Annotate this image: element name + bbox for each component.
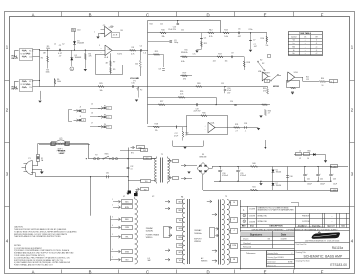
svg-text:+: + bbox=[305, 53, 306, 55]
svg-text:F: F bbox=[321, 12, 324, 17]
svg-text:-45V: -45V bbox=[333, 190, 336, 192]
svg-text:ORN: ORN bbox=[125, 227, 130, 229]
svg-text:J6: J6 bbox=[91, 113, 93, 115]
svg-text:22k: 22k bbox=[29, 87, 32, 89]
svg-text:C: C bbox=[146, 12, 149, 17]
svg-text:VR1: VR1 bbox=[146, 158, 149, 160]
svg-text:C15: C15 bbox=[221, 83, 224, 85]
svg-text:S2: S2 bbox=[260, 60, 262, 62]
svg-text:470: 470 bbox=[263, 90, 266, 92]
svg-text:Tolerance: Tolerance bbox=[246, 252, 256, 255]
svg-text:+: + bbox=[240, 170, 241, 172]
svg-text:50/60Hz: 50/60Hz bbox=[194, 233, 201, 235]
svg-text:4.7k: 4.7k bbox=[180, 94, 183, 96]
svg-text:C21: C21 bbox=[160, 23, 163, 25]
svg-text:Released: Released bbox=[243, 246, 251, 248]
svg-text:D: D bbox=[206, 269, 209, 274]
svg-text:J4: J4 bbox=[330, 82, 332, 84]
svg-text:3: 3 bbox=[99, 45, 100, 47]
svg-text:TL072: TL072 bbox=[117, 54, 122, 56]
svg-text:22k: 22k bbox=[29, 56, 32, 58]
svg-text:.47uF: .47uF bbox=[174, 135, 178, 137]
svg-text:P2: P2 bbox=[108, 108, 110, 110]
svg-text:100k: 100k bbox=[57, 81, 61, 83]
svg-text:Lo: Lo bbox=[293, 43, 295, 45]
svg-text:R15: R15 bbox=[155, 51, 158, 53]
svg-text:L2: L2 bbox=[299, 151, 301, 153]
svg-text:1N5404: 1N5404 bbox=[276, 171, 282, 173]
svg-text:470: 470 bbox=[183, 79, 186, 81]
svg-text:1N4448: 1N4448 bbox=[77, 42, 84, 44]
svg-text:P1: P1 bbox=[28, 158, 30, 160]
svg-text:4.5 R: 4.5 R bbox=[113, 34, 118, 36]
svg-text:VOLUME: VOLUME bbox=[130, 78, 140, 80]
svg-text:C41: C41 bbox=[307, 178, 310, 180]
svg-text:10uF: 10uF bbox=[333, 184, 337, 186]
svg-text:R11: R11 bbox=[204, 43, 207, 45]
svg-text:R1 1k: R1 1k bbox=[29, 50, 33, 52]
svg-text:C: C bbox=[146, 269, 149, 274]
svg-text:R7: R7 bbox=[113, 62, 115, 64]
svg-text:.047: .047 bbox=[254, 46, 257, 48]
svg-text:C2: C2 bbox=[62, 44, 64, 46]
svg-text:+4: +4 bbox=[315, 46, 317, 48]
svg-text:230VAC: 230VAC bbox=[146, 227, 154, 230]
svg-text:R30: R30 bbox=[202, 112, 205, 114]
svg-text:R40: R40 bbox=[252, 163, 255, 165]
svg-text:INPUT: INPUT bbox=[12, 58, 19, 60]
svg-text:R2 68k: R2 68k bbox=[21, 84, 26, 86]
svg-text:ETS183-00: ETS183-00 bbox=[330, 263, 347, 267]
svg-text:.01: .01 bbox=[130, 168, 132, 170]
svg-text:F2: F2 bbox=[95, 155, 97, 157]
svg-text:L1: L1 bbox=[54, 44, 56, 46]
svg-text:COPYRIGHT ST LOUIS MUSIC SUPPL: COPYRIGHT ST LOUIS MUSIC SUPPLY CO bbox=[296, 226, 326, 228]
svg-text:50k: 50k bbox=[135, 64, 138, 66]
svg-text:LAMP: LAMP bbox=[59, 152, 65, 155]
svg-text:10: 10 bbox=[307, 158, 309, 160]
svg-text:C9: C9 bbox=[231, 53, 233, 55]
svg-text:INPUT: INPUT bbox=[12, 89, 19, 91]
svg-text:100uF: 100uF bbox=[320, 184, 325, 186]
svg-text:1M: 1M bbox=[43, 53, 46, 55]
svg-text:-3: -3 bbox=[316, 43, 318, 45]
svg-text:4k7: 4k7 bbox=[105, 63, 108, 65]
svg-text:R12: R12 bbox=[209, 29, 212, 31]
svg-text:J3: J3 bbox=[83, 120, 85, 122]
svg-text:Date: Date bbox=[250, 225, 254, 228]
svg-text:R56: R56 bbox=[321, 78, 324, 80]
svg-text:0: 0 bbox=[316, 40, 317, 42]
svg-text:−: − bbox=[204, 130, 205, 132]
svg-text:Drawing Type INCHES: Drawing Type INCHES bbox=[268, 257, 284, 259]
svg-text:R8: R8 bbox=[132, 47, 134, 49]
svg-text:F: F bbox=[321, 269, 324, 274]
svg-text:1.0: 1.0 bbox=[143, 53, 146, 55]
svg-text:GRN: GRN bbox=[125, 251, 130, 253]
svg-text:B: B bbox=[89, 269, 92, 274]
svg-text:R31: R31 bbox=[235, 124, 238, 126]
svg-text:RA115a: RA115a bbox=[332, 246, 344, 250]
svg-text:J2: J2 bbox=[83, 111, 85, 113]
svg-text:Checked: Checked bbox=[243, 243, 250, 245]
svg-text:THAT EXPLAINED IN THE OPERATIN: THAT EXPLAINED IN THE OPERATING INSTRUCT… bbox=[14, 235, 61, 238]
svg-text:YEL: YEL bbox=[125, 237, 128, 239]
svg-text:C19: C19 bbox=[195, 108, 198, 110]
svg-text:C31: C31 bbox=[106, 172, 109, 174]
svg-text:1N4448: 1N4448 bbox=[75, 57, 82, 59]
svg-text:S2: S2 bbox=[262, 63, 264, 65]
svg-text:R26: R26 bbox=[197, 83, 200, 85]
svg-text:WIRING: WIRING bbox=[146, 237, 153, 239]
svg-text:10: 10 bbox=[321, 85, 323, 87]
svg-text:R2: R2 bbox=[41, 58, 43, 60]
svg-text:+: + bbox=[222, 170, 223, 172]
svg-text:+2: +2 bbox=[315, 53, 317, 55]
svg-text:22k: 22k bbox=[181, 30, 184, 32]
svg-text:On: On bbox=[304, 36, 306, 38]
svg-text:Mid: Mid bbox=[292, 46, 295, 48]
svg-text:P2: P2 bbox=[140, 90, 142, 92]
svg-text:C40: C40 bbox=[290, 176, 293, 178]
svg-text:Control: Control bbox=[291, 35, 297, 38]
svg-text:NONE: NONE bbox=[288, 261, 293, 263]
svg-text:+: + bbox=[320, 174, 321, 176]
svg-text:8.2k: 8.2k bbox=[209, 36, 213, 38]
svg-text:YEL: YEL bbox=[179, 220, 182, 222]
svg-text:SW2: SW2 bbox=[138, 148, 141, 150]
svg-text:4.7k: 4.7k bbox=[131, 53, 134, 55]
svg-text:BRIDGE: BRIDGE bbox=[200, 157, 208, 159]
svg-text:R18: R18 bbox=[247, 62, 250, 64]
svg-text:1: 1 bbox=[94, 32, 95, 34]
svg-text:4700uF: 4700uF bbox=[222, 175, 228, 177]
svg-text:PWB ECN: PWB ECN bbox=[302, 216, 310, 218]
svg-text:6.8k: 6.8k bbox=[181, 61, 185, 63]
svg-text:C3: C3 bbox=[103, 25, 105, 27]
svg-text:WIRING: WIRING bbox=[194, 241, 201, 243]
svg-text:J8: J8 bbox=[266, 81, 268, 83]
svg-text:C20: C20 bbox=[230, 101, 233, 103]
svg-text:C43: C43 bbox=[333, 178, 336, 180]
svg-text:8: 8 bbox=[234, 219, 235, 221]
svg-text:16: 16 bbox=[233, 202, 235, 204]
svg-text:First Used On:: First Used On: bbox=[296, 243, 307, 246]
svg-text:22uF 25V: 22uF 25V bbox=[194, 110, 202, 112]
svg-text:+: + bbox=[307, 174, 308, 176]
svg-text:A: A bbox=[32, 12, 35, 17]
svg-text:DESCRIPTION: DESCRIPTION bbox=[270, 226, 284, 228]
svg-text:1/31/98: 1/31/98 bbox=[249, 216, 255, 218]
svg-text:R41: R41 bbox=[252, 187, 255, 189]
svg-text:C7: C7 bbox=[253, 40, 255, 42]
svg-text:R9: R9 bbox=[113, 69, 115, 71]
svg-text:C22: C22 bbox=[306, 79, 309, 81]
svg-text:47k: 47k bbox=[89, 55, 92, 57]
svg-text:C7a: C7a bbox=[193, 53, 196, 55]
svg-text:U1B: U1B bbox=[108, 49, 111, 51]
svg-text:R14: R14 bbox=[261, 38, 264, 40]
svg-text:INITIAL REL: INITIAL REL bbox=[258, 215, 267, 218]
svg-text:LP1: LP1 bbox=[59, 138, 62, 140]
svg-text:MODE: MODE bbox=[273, 86, 280, 88]
svg-text:R17: R17 bbox=[218, 53, 221, 55]
svg-text:-5: -5 bbox=[316, 50, 318, 52]
svg-text:A: A bbox=[32, 269, 35, 274]
svg-text:J2: J2 bbox=[80, 107, 82, 109]
svg-text:E: E bbox=[264, 12, 267, 17]
svg-text:22uF 25V: 22uF 25V bbox=[168, 29, 177, 31]
svg-text:Drawing Scale: Drawing Scale bbox=[268, 253, 278, 255]
svg-text:R2 68k: R2 68k bbox=[21, 53, 26, 55]
svg-text:T1: T1 bbox=[161, 154, 163, 156]
svg-text:22k: 22k bbox=[155, 130, 158, 132]
svg-text:1k: 1k bbox=[185, 135, 187, 137]
svg-text:T3: T3 bbox=[225, 196, 227, 198]
svg-text:100k: 100k bbox=[46, 48, 50, 50]
svg-text:R27: R27 bbox=[160, 101, 163, 103]
svg-text:CU PROM: CU PROM bbox=[302, 221, 310, 223]
svg-text:33k: 33k bbox=[161, 36, 164, 38]
svg-text:50/60Hz: 50/60Hz bbox=[146, 231, 153, 233]
svg-text:P3: P3 bbox=[108, 117, 110, 119]
svg-text:+: + bbox=[305, 50, 306, 52]
svg-text:4700uF: 4700uF bbox=[240, 175, 246, 177]
svg-text:100uF: 100uF bbox=[307, 184, 312, 186]
svg-text:1N5404: 1N5404 bbox=[276, 185, 282, 187]
svg-text:V1: V1 bbox=[123, 196, 125, 198]
svg-text:4: 4 bbox=[234, 230, 235, 232]
svg-text:Drawn: Drawn bbox=[243, 238, 248, 241]
svg-text:15k: 15k bbox=[266, 45, 269, 47]
svg-text:R13a: R13a bbox=[249, 29, 253, 31]
svg-text:C8: C8 bbox=[158, 69, 160, 71]
svg-text:RT1: RT1 bbox=[131, 153, 134, 155]
svg-text:C42: C42 bbox=[320, 178, 323, 180]
svg-text:+: + bbox=[305, 40, 306, 42]
svg-text:T2: T2 bbox=[181, 197, 183, 199]
svg-text:Date: Date bbox=[281, 233, 287, 236]
svg-text:R24: R24 bbox=[150, 23, 153, 25]
svg-text:.1: .1 bbox=[245, 131, 246, 133]
svg-text:E: E bbox=[264, 269, 267, 274]
svg-text:R25: R25 bbox=[99, 83, 102, 85]
svg-text:.022: .022 bbox=[212, 60, 215, 62]
svg-text:V2: V2 bbox=[152, 196, 154, 198]
svg-text:10k: 10k bbox=[99, 90, 102, 92]
svg-text:P4: P4 bbox=[108, 127, 110, 129]
svg-text:C2: C2 bbox=[140, 46, 142, 48]
svg-text:C5: C5 bbox=[204, 38, 206, 40]
svg-text:C15: C15 bbox=[131, 83, 134, 85]
svg-text:J5: J5 bbox=[91, 104, 93, 106]
svg-text:SW1: SW1 bbox=[105, 153, 109, 155]
svg-text:BRIGHT: BRIGHT bbox=[263, 73, 271, 75]
svg-text:Date: Date bbox=[341, 225, 345, 228]
svg-text:+45V: +45V bbox=[333, 167, 337, 169]
svg-text:1/14/98: 1/14/98 bbox=[249, 208, 255, 210]
svg-text:COM: COM bbox=[232, 245, 237, 247]
svg-text:Signatures: Signatures bbox=[250, 233, 263, 236]
svg-text:B: B bbox=[89, 12, 92, 17]
svg-text:TH2: TH2 bbox=[144, 189, 147, 191]
svg-text:2.7: 2.7 bbox=[236, 130, 238, 132]
svg-text:R50: R50 bbox=[308, 151, 311, 153]
svg-text:C32: C32 bbox=[130, 166, 133, 168]
svg-text:J7: J7 bbox=[91, 122, 93, 124]
svg-text:C6: C6 bbox=[238, 29, 240, 31]
svg-text:100p: 100p bbox=[174, 42, 178, 44]
svg-text:1k5: 1k5 bbox=[225, 60, 228, 62]
svg-text:+: + bbox=[333, 174, 334, 176]
svg-text:D6: D6 bbox=[276, 169, 278, 171]
svg-text:.47: .47 bbox=[59, 55, 62, 57]
svg-text:D: D bbox=[206, 12, 209, 17]
svg-text:R21: R21 bbox=[306, 77, 309, 79]
svg-text:R13: R13 bbox=[224, 29, 227, 31]
svg-text:R19: R19 bbox=[183, 72, 186, 74]
svg-text:TH1: TH1 bbox=[145, 181, 148, 183]
svg-text:R28: R28 bbox=[155, 124, 158, 126]
svg-text:INITIAL REL: INITIAL REL bbox=[258, 220, 267, 223]
svg-text:L2: L2 bbox=[299, 158, 301, 160]
svg-text:D7: D7 bbox=[276, 183, 278, 185]
svg-text:C18: C18 bbox=[244, 123, 247, 125]
svg-text:R1 1k: R1 1k bbox=[29, 81, 33, 83]
svg-text:2.7: 2.7 bbox=[268, 113, 270, 115]
svg-text:3: 3 bbox=[244, 221, 245, 223]
svg-text:240VAC: 240VAC bbox=[194, 229, 202, 232]
svg-text:1/31/98: 1/31/98 bbox=[249, 221, 255, 223]
svg-text:6.8k: 6.8k bbox=[184, 52, 187, 54]
svg-text:+: + bbox=[305, 43, 306, 45]
svg-text:.047: .047 bbox=[237, 36, 241, 38]
svg-text:SCHEMATIC: BASS AMP: SCHEMATIC: BASS AMP bbox=[304, 255, 343, 259]
svg-text:J3: J3 bbox=[80, 116, 82, 118]
svg-text:FUSE OVERALL AND BOTTOM TOO AN: FUSE OVERALL AND BOTTOM TOO AND OUT bbox=[14, 264, 54, 267]
svg-text:5.6k: 5.6k bbox=[224, 36, 228, 38]
svg-text:2: 2 bbox=[244, 215, 245, 217]
svg-text:WIRING: WIRING bbox=[201, 261, 208, 263]
svg-text:Approval: Approval bbox=[327, 225, 335, 228]
svg-text:R6: R6 bbox=[121, 30, 123, 32]
svg-text:100k: 100k bbox=[46, 72, 50, 74]
svg-text:C10: C10 bbox=[77, 30, 80, 32]
svg-text:UNPUBLISHED ALL RIGHTS RESERVE: UNPUBLISHED ALL RIGHTS RESERVED — COPYIN… bbox=[252, 228, 339, 231]
svg-text:1/14/98: 1/14/98 bbox=[281, 239, 287, 241]
svg-text:R10: R10 bbox=[161, 29, 164, 31]
svg-text:CAUTION:: CAUTION: bbox=[14, 225, 24, 228]
svg-text:SW2: SW2 bbox=[143, 150, 146, 152]
svg-text:Drawing Part Num:: Drawing Part Num: bbox=[296, 260, 311, 263]
